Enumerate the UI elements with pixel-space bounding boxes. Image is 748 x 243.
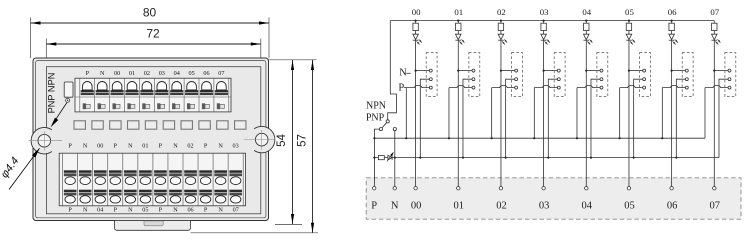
svg-text:P: P	[398, 83, 404, 94]
svg-text:03: 03	[233, 142, 239, 149]
svg-text:P: P	[114, 142, 118, 149]
svg-text:P: P	[114, 206, 118, 213]
svg-text:07: 07	[710, 7, 719, 17]
svg-text:02: 02	[496, 200, 507, 211]
svg-text:P: P	[204, 206, 208, 213]
svg-text:P: P	[68, 142, 72, 149]
svg-text:05: 05	[625, 7, 634, 17]
svg-text:N: N	[100, 70, 105, 77]
svg-text:N: N	[128, 142, 133, 149]
svg-text:01: 01	[142, 142, 148, 149]
svg-text:01: 01	[454, 7, 463, 17]
svg-text:N: N	[399, 67, 407, 78]
svg-text:01: 01	[129, 70, 135, 77]
svg-text:N: N	[218, 142, 223, 149]
svg-text:NPN: NPN	[366, 101, 386, 112]
svg-text:PNP NPN: PNP NPN	[47, 73, 57, 114]
svg-text:02: 02	[187, 142, 193, 149]
svg-text:N: N	[173, 206, 178, 213]
svg-text:07: 07	[218, 70, 224, 77]
svg-text:04: 04	[97, 206, 103, 213]
svg-text:07: 07	[233, 206, 239, 213]
svg-text:05: 05	[142, 206, 148, 213]
svg-text:03: 03	[539, 200, 550, 211]
svg-text:N: N	[128, 206, 133, 213]
svg-text:06: 06	[667, 200, 678, 211]
svg-text:N: N	[391, 200, 399, 211]
svg-text:P: P	[371, 200, 377, 211]
svg-text:N: N	[173, 142, 178, 149]
svg-text:57: 57	[297, 134, 309, 147]
svg-text:N: N	[83, 206, 88, 213]
svg-text:01: 01	[454, 200, 465, 211]
svg-text:54: 54	[276, 134, 288, 147]
svg-text:03: 03	[540, 7, 549, 17]
svg-text:80: 80	[143, 6, 157, 20]
svg-text:04: 04	[174, 70, 180, 77]
svg-text:72: 72	[146, 27, 160, 41]
svg-text:N: N	[83, 142, 88, 149]
svg-text:02: 02	[144, 70, 150, 77]
svg-text:06: 06	[187, 206, 193, 213]
svg-text:07: 07	[710, 200, 721, 211]
svg-text:P: P	[68, 206, 72, 213]
svg-text:PNP: PNP	[366, 113, 385, 124]
svg-text:03: 03	[159, 70, 165, 77]
svg-text:00: 00	[114, 70, 120, 77]
svg-text:P: P	[159, 206, 163, 213]
svg-text:06: 06	[203, 70, 209, 77]
svg-text:00: 00	[411, 200, 422, 211]
svg-text:06: 06	[668, 7, 677, 17]
svg-text:00: 00	[412, 7, 421, 17]
svg-text:05: 05	[624, 200, 635, 211]
svg-text:00: 00	[97, 142, 103, 149]
svg-text:P: P	[86, 70, 90, 77]
svg-text:04: 04	[582, 7, 591, 17]
svg-text:N: N	[218, 206, 223, 213]
svg-text:02: 02	[497, 7, 506, 17]
svg-text:05: 05	[189, 70, 195, 77]
svg-text:04: 04	[582, 200, 593, 211]
svg-text:P: P	[159, 142, 163, 149]
svg-text:P: P	[204, 142, 208, 149]
